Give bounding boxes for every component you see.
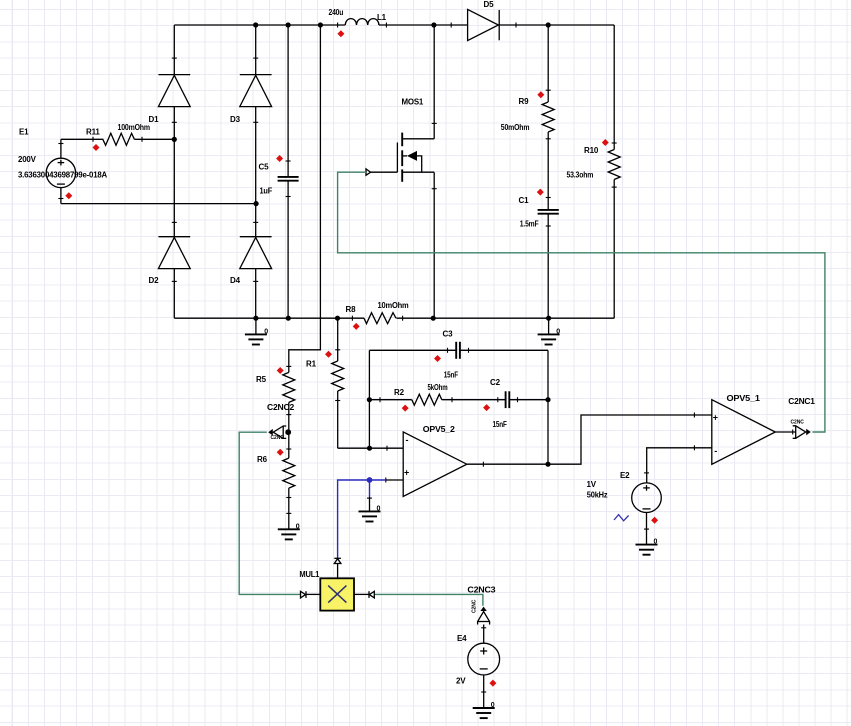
wire top rail right segment: [499, 24, 614, 26]
ground output: [538, 318, 560, 344]
probe dot C3: [434, 355, 441, 362]
wire right bridge column mid: [255, 107, 257, 237]
node dot top rail at MOS drain: [431, 22, 436, 27]
port C2NC1 arrow: [793, 426, 811, 439]
voltage source E1: [46, 139, 75, 203]
probe dot R6: [277, 449, 284, 456]
svg-text:0: 0: [556, 329, 560, 336]
svg-text:53.3ohm: 53.3ohm: [567, 170, 594, 179]
node dot top rail at D3 column: [253, 22, 258, 27]
svg-text:D4: D4: [230, 276, 241, 285]
svg-text:D3: D3: [230, 115, 241, 124]
svg-text:D2: D2: [149, 276, 160, 285]
wire left bridge column mid: [173, 107, 175, 237]
op-amp OPV5_1: [694, 400, 775, 465]
svg-text:D5: D5: [484, 0, 495, 9]
probe dot R9: [537, 91, 544, 98]
svg-text:+: +: [713, 413, 718, 423]
resistor R1: [332, 318, 344, 448]
svg-text:E2: E2: [620, 471, 630, 480]
svg-text:0: 0: [377, 506, 381, 513]
svg-text:R8: R8: [346, 305, 357, 314]
svg-text:R11: R11: [86, 128, 100, 137]
node dot output feedback: [545, 462, 550, 467]
ground opamp2 plus: [359, 498, 381, 521]
probe dot E2: [651, 517, 658, 524]
svg-text:50mOhm: 50mOhm: [501, 123, 530, 132]
node dot blue plus: [367, 477, 373, 483]
svg-text:R6: R6: [257, 455, 268, 464]
tick opamp1 output: [792, 430, 794, 435]
node dot C2NC2: [285, 429, 291, 435]
resistor R8: [352, 313, 402, 324]
wire R1 to opamp minus: [338, 447, 404, 449]
svg-text:1V: 1V: [587, 480, 597, 489]
svg-text:50kHz: 50kHz: [587, 491, 608, 500]
svg-text:-: -: [406, 435, 409, 445]
svg-text:L1: L1: [377, 13, 387, 22]
node dot R2 left: [367, 397, 372, 402]
svg-text:1uF: 1uF: [260, 187, 273, 196]
node dot bottom rail ground right: [546, 316, 551, 321]
ground bridge: [245, 318, 267, 344]
svg-text:0: 0: [264, 329, 268, 336]
port C2NC3 arrow: [478, 607, 490, 625]
diode D2: [158, 222, 190, 281]
node dot bottom rail MOS source: [431, 316, 436, 321]
svg-text:R5: R5: [256, 375, 267, 384]
node dot bottom rail C5: [286, 316, 291, 321]
wire right bridge column lower: [255, 269, 257, 319]
svg-text:0: 0: [654, 539, 658, 546]
probe dot R1: [325, 351, 332, 358]
op-amp OPV5_2: [386, 432, 467, 497]
capacitor C5: [278, 25, 299, 318]
wire opamp1 minus input: [647, 448, 712, 483]
svg-text:C1: C1: [519, 196, 530, 205]
gate input port arrow: [366, 169, 371, 175]
diode D3: [240, 58, 272, 122]
multiplier MUL1: [320, 578, 354, 610]
node dot R11 bridge junction: [172, 137, 177, 142]
resistor R5: [283, 366, 295, 432]
wire top rail mid segment: [379, 24, 468, 26]
wire left bridge column upper: [173, 25, 175, 75]
svg-text:0: 0: [296, 523, 300, 530]
svg-text:C2NC2: C2NC2: [267, 403, 295, 412]
svg-text:100mOhm: 100mOhm: [118, 123, 150, 132]
svg-text:0: 0: [491, 702, 495, 709]
wire green gate feedback: [338, 172, 825, 432]
svg-text:OPV5_2: OPV5_2: [423, 425, 456, 434]
wire ground stub black: [369, 497, 371, 511]
svg-text:C2NC3: C2NC3: [467, 586, 496, 595]
inductor L1: [338, 19, 387, 28]
node dot bridge AC right: [254, 201, 259, 206]
capacitor C3: [369, 342, 548, 359]
mosfet MOS1: [370, 25, 437, 318]
svg-text:E4: E4: [457, 634, 467, 643]
wire green reference: [374, 594, 483, 605]
voltage source E4: [468, 628, 500, 708]
wire opamp2 output: [467, 415, 712, 464]
svg-text:C2NC: C2NC: [791, 419, 805, 425]
wire right bridge column upper: [255, 25, 257, 75]
wire bottom rail left segment: [174, 317, 364, 319]
svg-text:R1: R1: [306, 360, 317, 369]
probe dot R5: [277, 367, 284, 374]
svg-text:5kOhm: 5kOhm: [428, 383, 448, 392]
wire E1 bottom to bridge: [61, 203, 256, 205]
svg-text:15nF: 15nF: [493, 420, 507, 429]
svg-text:MOS1: MOS1: [402, 97, 424, 106]
probe dot E4: [489, 680, 496, 687]
node dot bottom rail ground left: [253, 316, 258, 321]
probe dot L1: [337, 30, 344, 37]
ground R6: [278, 529, 300, 539]
wire opamp1 output: [775, 431, 795, 433]
svg-text:240u: 240u: [329, 8, 344, 17]
wire feedback right column: [547, 350, 549, 464]
svg-text:OPV5_1: OPV5_1: [727, 394, 761, 403]
probe dot R11: [93, 144, 100, 151]
wire sense column from top rail: [289, 25, 321, 372]
capacitor C2: [442, 391, 548, 408]
resistor R11: [61, 133, 174, 145]
port C2NC2 arrow: [268, 426, 286, 438]
svg-text:R10: R10: [584, 146, 599, 155]
probe dot C2: [483, 404, 490, 411]
svg-text:2V: 2V: [456, 677, 466, 686]
svg-text:C2NC: C2NC: [271, 435, 285, 441]
svg-text:C2NC1: C2NC1: [788, 397, 815, 406]
wire blue ground stub: [369, 480, 371, 497]
capacitor C1: [538, 198, 559, 319]
svg-text:C3: C3: [443, 330, 454, 339]
wire top rail left segment: [174, 24, 345, 26]
svg-text:-: -: [714, 446, 717, 456]
port MUL1 left input: [301, 591, 321, 598]
wire E4 top: [483, 625, 485, 644]
wire blue plus input: [338, 480, 386, 558]
probe dot R10: [602, 139, 609, 146]
probe dot R2: [402, 405, 409, 412]
diode D1: [158, 58, 190, 122]
svg-text:MUL1: MUL1: [299, 570, 320, 579]
svg-text:200V: 200V: [18, 155, 37, 164]
wire feedback left column: [368, 350, 370, 448]
svg-text:C2NC: C2NC: [472, 599, 478, 613]
probe dot C1: [537, 189, 544, 196]
svg-text:R2: R2: [394, 388, 405, 397]
ground E4: [473, 708, 495, 718]
diode D4: [240, 222, 272, 281]
wire left bridge column lower: [173, 269, 175, 319]
resistor R2: [369, 394, 452, 405]
svg-text:3.63630043698799e-018A: 3.63630043698799e-018A: [18, 170, 107, 179]
probe dot E1: [65, 192, 72, 199]
sine symbol E2: [614, 515, 629, 521]
node dot top rail at C5 column: [286, 22, 291, 27]
port MUL1 top output: [334, 558, 341, 578]
wire opamp2 plus stub: [386, 479, 403, 481]
port MUL1 right input: [354, 591, 374, 598]
wire bottom rail right segment: [396, 317, 614, 319]
svg-text:15nF: 15nF: [444, 371, 458, 380]
probe dot C5: [276, 155, 283, 162]
resistor R9: [542, 25, 554, 209]
wire green divider sense: [239, 432, 300, 594]
node dot opamp minus: [367, 446, 372, 451]
svg-text:R9: R9: [519, 97, 530, 106]
ground E2: [636, 545, 658, 555]
node dot top rail at sense column: [318, 22, 323, 27]
svg-text:E1: E1: [19, 128, 29, 137]
svg-text:C2: C2: [490, 378, 501, 387]
svg-text:+: +: [404, 468, 409, 478]
node dot bottom rail R1: [335, 316, 340, 321]
resistor R6: [283, 432, 295, 529]
node dot top rail at R9 column: [546, 22, 551, 27]
probe dot R8: [353, 323, 360, 330]
svg-text:C5: C5: [259, 163, 270, 172]
voltage source E2: [632, 473, 662, 545]
node dot C2 right: [545, 397, 550, 402]
svg-text:1.5mF: 1.5mF: [520, 219, 539, 228]
tick opamp2 output: [482, 462, 484, 467]
resistor R10: [608, 25, 620, 318]
svg-text:10mOhm: 10mOhm: [378, 301, 409, 310]
diode D5: [451, 9, 516, 40]
svg-text:D1: D1: [149, 115, 160, 124]
